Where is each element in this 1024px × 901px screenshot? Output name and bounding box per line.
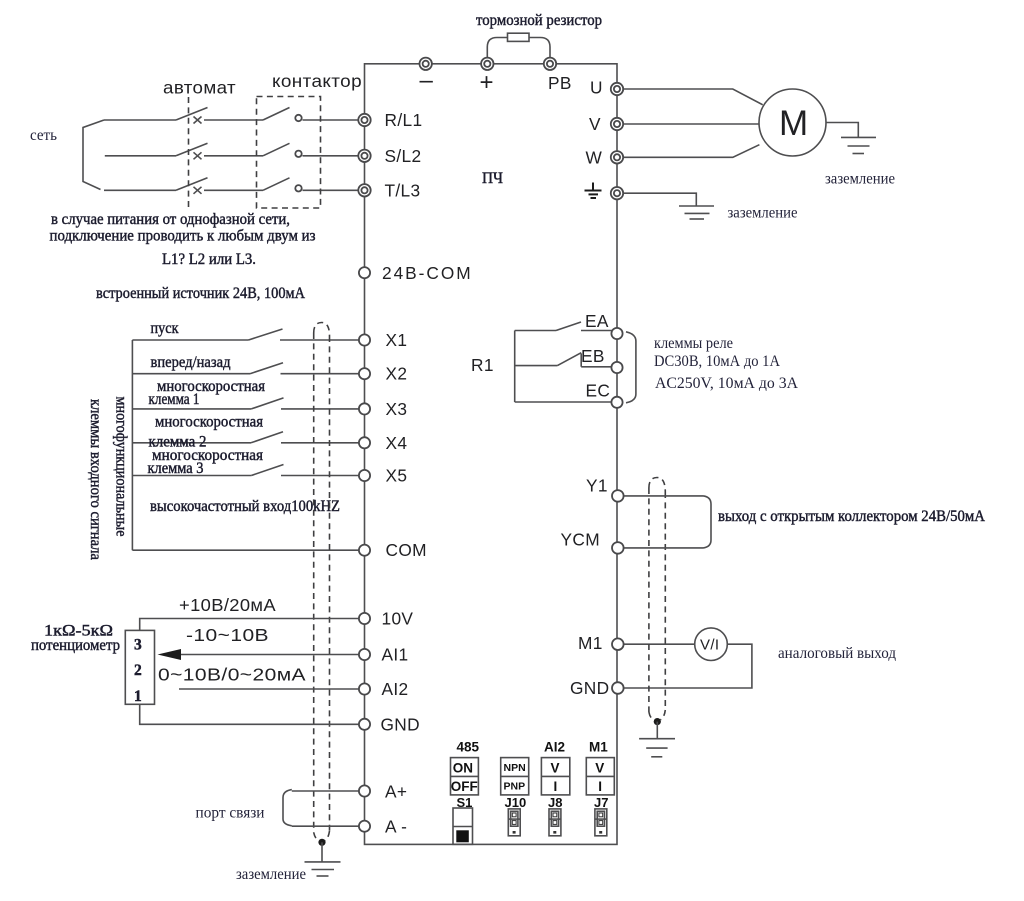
wire X5 row xyxy=(132,475,359,477)
svg-text:I: I xyxy=(554,779,558,794)
breaker pole 1 x-mark xyxy=(194,117,202,124)
terminal minus xyxy=(420,58,432,70)
switch X4 blade xyxy=(251,432,283,443)
contactor pole 1 contact xyxy=(295,115,301,121)
terminal PB xyxy=(544,58,556,70)
breaker pole 1 blade xyxy=(176,108,208,121)
svg-text:заземление: заземление xyxy=(728,205,798,222)
svg-text:-10~10В: -10~10В xyxy=(186,625,269,645)
svg-text:485: 485 xyxy=(457,740,480,755)
svg-text:ПЧ: ПЧ xyxy=(482,170,503,187)
wire X4 row xyxy=(132,442,359,444)
switch S1 ON/OFF box xyxy=(451,758,479,795)
terminal AI1 xyxy=(359,649,370,660)
contactor pole 1 blade xyxy=(263,108,290,121)
svg-text:X1: X1 xyxy=(386,330,408,350)
svg-text:заземление: заземление xyxy=(825,171,895,188)
terminal Y1 xyxy=(612,490,624,502)
svg-text:OFF: OFF xyxy=(451,779,478,794)
svg-text:сеть: сеть xyxy=(30,127,57,144)
terminal M1 xyxy=(612,638,624,650)
switch X3 blade xyxy=(251,398,283,409)
wire phase L3 xyxy=(104,189,359,191)
svg-text:X4: X4 xyxy=(386,433,408,453)
wire PE to earth xyxy=(623,193,696,206)
svg-text:Y1: Y1 xyxy=(586,476,608,496)
svg-text:0~10В/0~20мА: 0~10В/0~20мА xyxy=(158,665,306,685)
svg-text:GND: GND xyxy=(381,714,420,734)
ground comm shield earth xyxy=(305,862,341,876)
svg-text:U: U xyxy=(590,78,603,98)
wire YCM row xyxy=(624,547,704,549)
relay EB row wire xyxy=(515,365,558,367)
svg-text:потенциометр: потенциометр xyxy=(31,637,120,654)
terminal X5 xyxy=(359,470,370,481)
contactor pole 3 blade xyxy=(263,178,290,191)
wire V to motor xyxy=(623,123,759,125)
relay left rail xyxy=(514,331,516,403)
terminal S/L2 xyxy=(358,150,370,162)
wire pot bottom to GND xyxy=(140,704,359,724)
switch X5 blade xyxy=(251,465,283,476)
wire motor to earth xyxy=(826,123,858,138)
wire Y1 row xyxy=(624,495,704,497)
svg-text:встроенный источник 24В, 100мА: встроенный источник 24В, 100мА xyxy=(96,285,306,302)
wire phase L1 xyxy=(104,119,359,121)
Y group bracket xyxy=(704,496,712,548)
terminal EC xyxy=(611,397,622,408)
wire brake resistor left lead xyxy=(487,38,507,61)
terminal W xyxy=(611,151,623,163)
jumper M1 V/I box xyxy=(586,758,614,795)
jumper J7 xyxy=(595,809,607,836)
wire A+ row xyxy=(292,790,359,792)
svg-text:J10: J10 xyxy=(505,795,527,810)
shielded cable left dashes xyxy=(313,333,315,833)
shielded cable left top arc xyxy=(314,323,330,337)
svg-text:L1? L2 или L3.: L1? L2 или L3. xyxy=(162,251,256,268)
terminal V xyxy=(611,118,623,130)
wire A- row xyxy=(292,825,359,827)
relay EB contact L xyxy=(581,354,612,367)
wire X1 row xyxy=(132,339,359,341)
wire VI meter loop to GND xyxy=(624,644,752,688)
terminal 24B-COM xyxy=(359,267,370,278)
svg-text:T/L3: T/L3 xyxy=(385,180,421,200)
terminal X1 xyxy=(359,334,370,345)
arrowhead AI1 wiper xyxy=(158,649,182,660)
shielded cable right dashes xyxy=(648,488,650,712)
svg-text:J7: J7 xyxy=(594,795,608,810)
svg-text:AC250V, 10мА до 3А: AC250V, 10мА до 3А xyxy=(655,375,799,392)
jumper J10 xyxy=(508,809,520,836)
contactor dashed box xyxy=(257,97,321,209)
svg-text:+10В/20мА: +10В/20мА xyxy=(179,595,276,615)
contactor pole 3 contact xyxy=(295,185,301,191)
svg-text:A+: A+ xyxy=(385,782,407,802)
svg-text:10V: 10V xyxy=(382,609,414,629)
svg-text:V: V xyxy=(589,114,601,134)
relay EB blade xyxy=(557,353,581,366)
wire phase L2 xyxy=(105,155,359,157)
contactor pole 2 contact xyxy=(295,151,301,157)
svg-text:M1: M1 xyxy=(589,740,608,755)
terminal X2 xyxy=(359,368,370,379)
svg-text:X5: X5 xyxy=(386,466,408,486)
wire shield to earth xyxy=(321,842,323,862)
svg-text:V: V xyxy=(551,761,560,776)
svg-text:клеммы входного сигнала: клеммы входного сигнала xyxy=(87,399,104,560)
svg-text:пуск: пуск xyxy=(151,320,179,337)
terminal X4 xyxy=(359,437,370,448)
breaker pole 2 blade xyxy=(176,143,208,156)
VI meter circle xyxy=(695,628,728,661)
potentiometer body xyxy=(125,630,154,704)
jumper J8 xyxy=(549,809,561,836)
svg-text:выход с открытым коллектором 2: выход с открытым коллектором 24В/50мА xyxy=(718,508,986,525)
wire AI2 row xyxy=(179,688,359,690)
svg-text:A -: A - xyxy=(385,817,407,837)
svg-text:V: V xyxy=(595,761,604,776)
svg-text:M1: M1 xyxy=(578,633,603,653)
svg-text:многофункциональные: многофункциональные xyxy=(113,397,130,537)
switch X1 blade xyxy=(249,329,283,340)
jumper NPN/PNP box xyxy=(501,758,529,795)
wire COM row xyxy=(132,549,359,551)
svg-text:заземление: заземление xyxy=(236,866,306,883)
svg-text:V/I: V/I xyxy=(700,637,719,654)
wire U to motor xyxy=(623,89,763,105)
svg-text:клемма 1: клемма 1 xyxy=(149,391,200,408)
wire pot top to 10V xyxy=(140,619,359,631)
svg-text:X3: X3 xyxy=(386,399,408,419)
svg-text:AI1: AI1 xyxy=(382,645,409,665)
svg-text:тормозной резистор: тормозной резистор xyxy=(476,12,602,29)
svg-text:I: I xyxy=(598,779,602,794)
ground PE earth xyxy=(679,206,714,219)
terminal R/L1 xyxy=(358,114,370,126)
svg-text:многоскоростная: многоскоростная xyxy=(155,414,263,431)
relay EC row wire xyxy=(515,401,612,403)
terminal YCM xyxy=(612,542,624,554)
relay EA blade xyxy=(556,322,581,331)
svg-text:S/L2: S/L2 xyxy=(385,146,422,166)
breaker pole 3 blade xyxy=(176,178,208,191)
svg-text:3: 3 xyxy=(134,637,142,654)
svg-text:клемма 3: клемма 3 xyxy=(148,460,204,477)
comm bracket xyxy=(283,790,292,826)
svg-text:клеммы реле: клеммы реле xyxy=(654,335,733,352)
svg-text:порт связи: порт связи xyxy=(196,805,265,822)
svg-text:PNP: PNP xyxy=(504,781,526,793)
svg-text:DC30B, 10мА до 1А: DC30B, 10мА до 1А xyxy=(654,353,781,370)
jumper AI2 V/I box xyxy=(541,758,569,795)
svg-text:PB: PB xyxy=(548,73,572,93)
svg-text:R1: R1 xyxy=(471,355,494,375)
shielded cable right convergence xyxy=(649,712,655,721)
terminal 10V xyxy=(359,613,370,624)
PE symbol inside box xyxy=(585,183,602,199)
junction dot analog shield xyxy=(654,718,661,725)
svg-text:X2: X2 xyxy=(386,364,408,384)
svg-text:AI2: AI2 xyxy=(544,740,565,755)
terminal AI2 xyxy=(359,683,370,694)
ground motor earth xyxy=(841,137,876,153)
terminal U xyxy=(611,83,623,95)
terminal COM xyxy=(359,545,370,556)
svg-text:1: 1 xyxy=(134,688,142,705)
wire brake resistor right lead xyxy=(529,38,550,61)
svg-text:YCM: YCM xyxy=(561,530,600,550)
svg-text:в случае питания от однофазной: в случае питания от однофазной сети, xyxy=(51,211,290,228)
shielded cable left convergence xyxy=(314,833,320,842)
supply bracket xyxy=(83,120,104,190)
motor M1 xyxy=(759,89,826,156)
wire M1 to VI meter xyxy=(624,643,696,645)
svg-text:контактор: контактор xyxy=(272,71,362,91)
svg-text:EC: EC xyxy=(586,381,611,401)
wire AI1 with arrow xyxy=(176,654,359,656)
svg-text:EA: EA xyxy=(585,311,609,331)
terminal X3 xyxy=(359,403,370,414)
svg-text:GND: GND xyxy=(570,678,609,698)
svg-text:COM: COM xyxy=(386,540,427,560)
ground analog shield earth xyxy=(639,739,675,757)
svg-text:+: + xyxy=(480,69,494,96)
relay EA row wire xyxy=(515,330,612,332)
terminal PE xyxy=(611,187,623,199)
svg-text:W: W xyxy=(586,147,603,167)
switch X2 blade xyxy=(250,363,283,374)
terminal plus xyxy=(481,58,493,70)
svg-text:–: – xyxy=(420,67,434,94)
terminal T/L3 xyxy=(358,184,370,196)
wire X2 row xyxy=(132,373,359,375)
breaker pole 3 x-mark xyxy=(194,187,202,194)
X common bracket xyxy=(131,340,133,550)
svg-text:вперед/назад: вперед/назад xyxy=(151,354,231,371)
svg-text:высокочастотный вход100kHZ: высокочастотный вход100kHZ xyxy=(150,498,340,515)
wire W to motor xyxy=(623,145,759,158)
terminal A- xyxy=(359,821,370,832)
shielded cable right top arc xyxy=(649,478,665,493)
terminal EB xyxy=(611,362,622,373)
svg-text:подключение проводить к любым: подключение проводить к любым двум из xyxy=(50,228,316,245)
wire analog shield to earth xyxy=(656,722,658,739)
breaker pole 2 x-mark xyxy=(194,152,202,159)
breaker dashed line xyxy=(188,97,190,208)
brake resistor body xyxy=(508,33,530,41)
svg-text:NPN: NPN xyxy=(504,762,526,774)
svg-text:ON: ON xyxy=(453,761,473,776)
svg-text:R/L1: R/L1 xyxy=(385,110,423,130)
terminal A+ xyxy=(359,785,370,796)
terminal GND left xyxy=(359,719,370,730)
terminal GND right xyxy=(612,682,624,694)
terminal EA xyxy=(611,328,622,339)
inverter main box ПЧ xyxy=(365,64,618,845)
svg-text:автомат: автомат xyxy=(163,78,236,98)
svg-text:2: 2 xyxy=(134,662,142,679)
svg-text:J8: J8 xyxy=(548,795,562,810)
svg-text:M: M xyxy=(779,104,809,143)
svg-text:EB: EB xyxy=(581,346,605,366)
relay group bracket xyxy=(626,332,636,403)
switch S1 slider xyxy=(453,808,473,844)
junction dot comm shield xyxy=(318,839,325,846)
svg-text:24B-COM: 24B-COM xyxy=(382,263,471,283)
contactor pole 2 blade xyxy=(263,143,290,156)
svg-text:аналоговый выход: аналоговый выход xyxy=(778,645,896,662)
svg-text:AI2: AI2 xyxy=(382,679,409,699)
wire X3 row xyxy=(132,408,359,410)
